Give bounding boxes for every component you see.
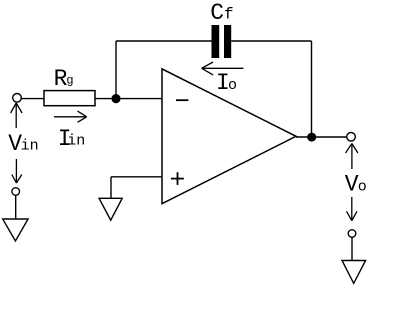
arrow up at Vin terminal	[11, 103, 23, 128]
wire op-amp output to terminal	[296, 136, 347, 138]
wire down to middle ground	[110, 177, 112, 199]
svg-text:in: in	[67, 132, 85, 149]
arrow down below Vin label	[12, 159, 22, 183]
svg-text:g: g	[66, 73, 73, 87]
wire resistor to inverting input	[95, 98, 162, 100]
capacitor Cf plates	[212, 25, 220, 58]
op-amp U1	[162, 69, 296, 204]
ground (middle, at + input)	[99, 198, 122, 220]
wire noninverting input	[111, 176, 162, 178]
node lower-left terminal (open circle)	[12, 188, 20, 196]
wire input terminal to resistor	[22, 98, 45, 100]
op-amp plus sign	[171, 172, 184, 185]
node Vin terminal (open circle)	[13, 94, 22, 103]
node Vo terminal (open circle)	[347, 133, 356, 142]
wire terminal to right ground	[351, 237, 353, 260]
svg-text:o: o	[358, 179, 367, 196]
arrow down below Vo label	[347, 197, 358, 221]
wire feedback riser from node A	[115, 41, 117, 99]
op-amp minus sign	[176, 99, 188, 101]
node lower-right terminal (open circle)	[348, 230, 356, 238]
svg-text:C: C	[210, 0, 224, 26]
node B output junction dot	[307, 133, 316, 142]
ground (left, under Vin)	[3, 219, 28, 241]
svg-text:f: f	[224, 6, 234, 24]
node A junction dot (inverting input)	[111, 94, 120, 103]
svg-text:V: V	[345, 172, 359, 198]
ground (right, under Vo)	[342, 261, 366, 284]
svg-text:in: in	[21, 138, 39, 155]
arrow Iin (current into op-amp)	[54, 111, 87, 122]
wire right riser down to output	[311, 41, 313, 137]
wire terminal to ground	[15, 195, 17, 219]
wire capacitor to right riser	[231, 40, 311, 42]
wire top left to capacitor	[116, 40, 212, 42]
arrow up at Vo terminal	[346, 144, 358, 170]
arrow Io (feedback current, pointing left)	[202, 62, 244, 75]
svg-text:o: o	[228, 77, 237, 94]
resistor Rg	[44, 91, 95, 106]
